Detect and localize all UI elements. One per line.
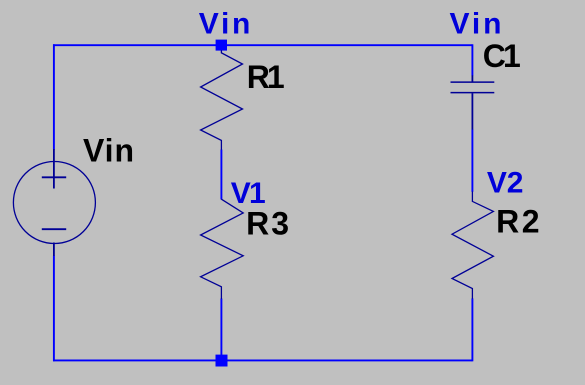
svg-text:Vin: Vin — [450, 8, 502, 41]
svg-text:R1: R1 — [247, 59, 285, 95]
capacitor C1 leads — [471, 75, 473, 129]
resistor R1 (zigzag) — [201, 50, 243, 150]
wire right vertical above C1 — [471, 44, 473, 75]
svg-text:V1: V1 — [231, 177, 266, 210]
resistor R2 (zigzag) — [452, 192, 493, 299]
voltage source top lead and plus vertical stroke — [53, 149, 55, 189]
svg-text:R3: R3 — [246, 206, 289, 242]
wire left vertical upper — [53, 44, 55, 149]
wire right vertical below R2 — [471, 298, 473, 361]
wire bottom horizontal (net 0) — [53, 359, 473, 361]
voltage source minus stroke — [42, 228, 66, 230]
svg-text:R2: R2 — [496, 203, 539, 239]
wire middle vertical between R1 and R3 (net V1) — [220, 150, 222, 200]
wire left vertical lower — [53, 256, 55, 362]
wire top horizontal (net Vin) — [53, 44, 473, 46]
junction top (node Vin at R1 top) — [216, 40, 227, 51]
svg-text:C1: C1 — [483, 38, 521, 74]
voltage source bottom lead — [53, 243, 55, 256]
voltage source Vin (circle body) — [13, 162, 95, 244]
voltage source plus horizontal stroke — [42, 176, 66, 178]
resistor R3 (zigzag) — [201, 199, 244, 299]
svg-text:V2: V2 — [487, 167, 524, 200]
capacitor C1 (plates) — [451, 82, 495, 93]
wire middle vertical below R3 — [220, 299, 222, 361]
junction bottom (node 0) — [216, 355, 228, 367]
wire right vertical between C1 and R2 (net V2) — [471, 129, 473, 191]
svg-text:Vin: Vin — [199, 8, 251, 41]
svg-text:Vin: Vin — [83, 133, 134, 169]
